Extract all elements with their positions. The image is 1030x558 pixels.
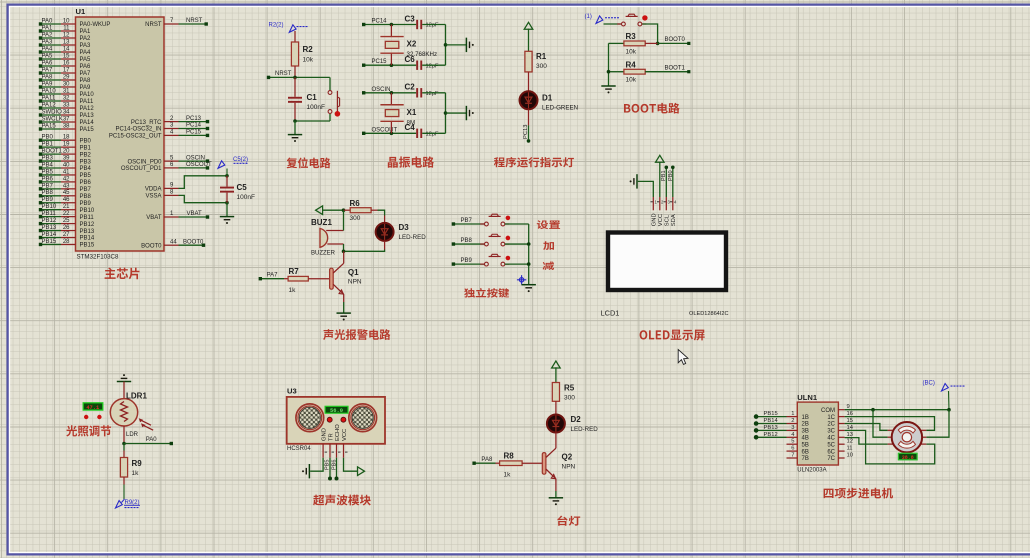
svg-text:11: 11 — [63, 25, 70, 31]
ultrasonic red dots — [327, 417, 332, 422]
wire keys right rail — [528, 224, 530, 284]
capacitor C4 12pF — [416, 129, 418, 138]
photoresistor LDR1 — [110, 399, 137, 426]
buzzer BUZ1 — [320, 229, 328, 248]
svg-text:3: 3 — [791, 425, 794, 431]
svg-text:32: 32 — [63, 95, 70, 101]
svg-text:PB13: PB13 — [80, 229, 95, 235]
wire PB1 to SCL — [665, 167, 667, 197]
svg-text:PB8: PB8 — [80, 194, 92, 200]
label 复位电路 — [287, 157, 331, 168]
svg-text:Q2: Q2 — [562, 453, 573, 462]
pin 7C pin 10 — [838, 457, 844, 459]
pin 7B pin 7 — [787, 457, 798, 459]
push button reset — [329, 77, 331, 90]
svg-text:37: 37 — [63, 116, 70, 122]
wire OSCOUT — [364, 132, 417, 134]
svg-text:PA11: PA11 — [80, 99, 94, 105]
svg-text:R3: R3 — [626, 32, 637, 41]
pin OSCOUT_PD1 6 wire OSCOUT — [164, 167, 179, 169]
wire 3C to motor right-bottom — [845, 430, 935, 464]
svg-text:PC13: PC13 — [523, 124, 529, 139]
wire PA0 from LDR — [123, 426, 125, 444]
svg-text:PA5: PA5 — [80, 57, 92, 63]
wire COM rail — [845, 409, 949, 411]
label 声光报警电路 — [323, 329, 390, 340]
svg-text:ECHO: ECHO — [335, 424, 341, 441]
svg-text:PA15: PA15 — [80, 127, 95, 133]
wire/pin PA7 pin 17 — [41, 72, 62, 74]
svg-text:PA9: PA9 — [80, 85, 92, 91]
svg-text:6B: 6B — [802, 449, 809, 455]
svg-text:OLED12864I2C: OLED12864I2C — [689, 311, 729, 317]
svg-text:PB6: PB6 — [80, 180, 92, 186]
svg-text:(1): (1) — [585, 14, 592, 20]
svg-text:1k: 1k — [504, 472, 512, 479]
wire/pin PB8 pin 45 — [41, 195, 62, 197]
capacitor C1 100nF — [294, 77, 296, 96]
pin PC13_RTC 2 wire PC13 — [164, 121, 179, 123]
pin 1B pin 1 — [787, 416, 798, 418]
svg-text:PA2: PA2 — [42, 32, 54, 38]
svg-text:1B: 1B — [802, 415, 809, 421]
svg-text:(BC): (BC) — [923, 381, 935, 387]
resistor R2 10k — [294, 31, 296, 42]
svg-text:46: 46 — [63, 197, 70, 203]
svg-text:PB9: PB9 — [80, 201, 92, 207]
pin 5C pin 12 — [838, 443, 844, 445]
svg-text:15: 15 — [63, 53, 70, 59]
svg-text:PA1: PA1 — [80, 29, 92, 35]
svg-text:R6: R6 — [350, 199, 361, 208]
svg-text:PB4: PB4 — [42, 162, 54, 168]
svg-text:56.0: 56.0 — [330, 408, 343, 414]
svg-text:PB5: PB5 — [80, 173, 92, 179]
wire PB13 — [756, 429, 786, 431]
svg-text:PA14: PA14 — [80, 120, 95, 126]
pin 5B pin 5 — [787, 443, 798, 445]
svg-text:C3: C3 — [405, 14, 416, 23]
svg-text:PB11: PB11 — [42, 211, 57, 217]
svg-text:42: 42 — [63, 176, 70, 182]
svg-text:PA5: PA5 — [42, 53, 54, 59]
wire/pin PA12 pin 33 — [41, 107, 62, 109]
wire/pin PB10 pin 21 — [41, 209, 62, 211]
svg-text:PA3: PA3 — [80, 43, 92, 49]
svg-text:10: 10 — [847, 453, 853, 459]
svg-text:PB14: PB14 — [80, 236, 95, 242]
pin 3C pin 14 — [838, 429, 844, 431]
svg-text:38.8: 38.8 — [902, 455, 914, 461]
power arrow U3 VCC — [344, 458, 358, 472]
pin 6B pin 6 — [787, 450, 798, 452]
LED D3 LED-RED — [378, 210, 385, 215]
svg-text:PC13_RTC: PC13_RTC — [131, 120, 162, 126]
wire PB12 — [756, 436, 786, 438]
svg-text:300: 300 — [564, 395, 575, 402]
pin 3B pin 3 — [787, 429, 798, 431]
LED D1 LED-GREEN — [520, 91, 538, 109]
svg-text:LED-GREEN: LED-GREEN — [542, 104, 578, 111]
wire left rail boot — [608, 43, 610, 85]
svg-text:COM: COM — [821, 408, 835, 414]
svg-text:R2(2): R2(2) — [269, 22, 284, 28]
svg-text:30: 30 — [63, 81, 70, 87]
node button/R3 junction — [656, 42, 660, 46]
svg-text:PA7: PA7 — [80, 71, 92, 77]
svg-text:PB15: PB15 — [764, 411, 778, 417]
svg-text:D1: D1 — [542, 94, 553, 103]
svg-text:R7: R7 — [289, 267, 300, 276]
svg-text:PA3: PA3 — [42, 39, 54, 45]
label 主芯片 — [105, 268, 140, 280]
power arrow indicator — [524, 22, 533, 29]
svg-text:31: 31 — [63, 88, 70, 94]
crystal X1 8M — [390, 91, 394, 95]
svg-text:10k: 10k — [626, 49, 637, 56]
wire buzzer rail — [343, 210, 345, 230]
wire VDDA to C5 top — [179, 176, 228, 189]
svg-text:R8: R8 — [504, 452, 515, 461]
svg-text:NRST: NRST — [275, 71, 292, 77]
svg-text:BOOT1: BOOT1 — [665, 65, 686, 71]
wire/pin PA8 pin 29 — [41, 79, 62, 81]
svg-text:OSCOUT: OSCOUT — [372, 127, 398, 133]
svg-text:PC13: PC13 — [186, 116, 202, 122]
wire/pin PA9 pin 30 — [41, 86, 62, 88]
svg-text:OSCOUT_PD1: OSCOUT_PD1 — [121, 166, 162, 172]
svg-text:18: 18 — [63, 135, 70, 141]
svg-text:PA12: PA12 — [80, 106, 95, 112]
svg-text:R1: R1 — [536, 52, 547, 61]
svg-text:PB13: PB13 — [42, 225, 57, 231]
wire 4C to motor left-bottom — [845, 438, 888, 445]
svg-text:40: 40 — [63, 162, 70, 168]
transducer right — [349, 404, 377, 432]
svg-text:PB7: PB7 — [461, 218, 473, 224]
svg-text:45: 45 — [63, 190, 70, 196]
wire C1 bottom to button — [295, 120, 330, 122]
pin BOOT0 44 wire BOOT0 — [164, 244, 179, 246]
wire/pin SWCLK pin 37 — [41, 121, 62, 123]
svg-text:PB7: PB7 — [42, 183, 54, 189]
svg-text:4C: 4C — [827, 436, 835, 442]
pin 4C pin 13 — [838, 436, 844, 438]
pin VBAT 1 wire VBAT — [164, 216, 179, 218]
svg-text:PB10: PB10 — [80, 208, 95, 214]
wire/pin PB12 pin 25 — [41, 223, 62, 225]
node C5 top junction — [225, 174, 229, 178]
ground OLED GND pin — [638, 181, 654, 197]
wire BOOT0 out — [658, 42, 689, 44]
svg-text:2: 2 — [791, 418, 794, 424]
wire OSCIN — [364, 92, 417, 94]
svg-text:21: 21 — [63, 204, 70, 210]
pin COM pin 9 — [838, 409, 844, 411]
svg-text:PB1: PB1 — [42, 142, 54, 148]
svg-text:PC15: PC15 — [372, 59, 388, 65]
wire PC15 — [364, 64, 417, 66]
svg-text:PB0: PB0 — [42, 135, 54, 141]
svg-text:7: 7 — [791, 453, 794, 459]
svg-text:PA7: PA7 — [267, 272, 279, 278]
svg-text:X2: X2 — [407, 40, 417, 49]
resistor R4 10k — [609, 71, 624, 73]
svg-text:12: 12 — [63, 32, 70, 38]
svg-text:PA11: PA11 — [42, 95, 56, 101]
svg-text:13: 13 — [847, 432, 853, 438]
svg-text:PA0: PA0 — [146, 437, 158, 443]
svg-text:39: 39 — [63, 155, 70, 161]
svg-text:17: 17 — [63, 67, 70, 73]
wire/pin PB6 pin 42 — [41, 181, 62, 183]
svg-text:26: 26 — [63, 225, 70, 231]
label 晶振电路 — [388, 156, 434, 167]
svg-text:100nF: 100nF — [307, 104, 325, 111]
svg-text:1k: 1k — [289, 287, 297, 294]
svg-text:12pF: 12pF — [426, 91, 439, 97]
label 独立按键 — [464, 288, 509, 298]
svg-text:PC14: PC14 — [186, 123, 202, 129]
blue net label R9(2) — [123, 485, 125, 500]
ground Q2 — [555, 491, 557, 497]
svg-text:PB6: PB6 — [331, 460, 337, 470]
svg-text:PB0: PB0 — [668, 170, 674, 181]
wire D3 to collector node — [344, 250, 385, 252]
wire COM to motor right — [926, 410, 949, 438]
wire VSSA to C5 bottom — [179, 195, 228, 202]
svg-text:PB5: PB5 — [42, 169, 54, 175]
resistor R1 300 — [525, 51, 532, 72]
transistor Q1 NPN — [330, 268, 334, 289]
node collector junction — [342, 250, 346, 254]
svg-text:2B: 2B — [802, 422, 809, 428]
resistor R6 300 — [344, 209, 351, 211]
wire/pin PA0 pin 10 — [41, 23, 62, 25]
wire/pin PA10 pin 31 — [41, 93, 62, 95]
transducer left — [296, 404, 324, 432]
label OLED显示屏 — [640, 330, 705, 341]
LCD1 pins GND VCC SCL SDA — [652, 197, 654, 210]
svg-text:PC14-OSC32_IN: PC14-OSC32_IN — [115, 127, 161, 133]
capacitor C2 12pF — [416, 88, 418, 97]
wire/pin PB15 pin 28 — [41, 243, 62, 245]
wire/pin PB9 pin 46 — [41, 202, 62, 204]
wire/pin PB14 pin 27 — [41, 237, 62, 239]
pin 4B pin 4 — [787, 436, 798, 438]
svg-text:NPN: NPN — [562, 464, 576, 471]
svg-text:GND: GND — [322, 428, 328, 441]
pin 2C pin 15 — [838, 423, 844, 425]
svg-text:4B: 4B — [802, 436, 809, 442]
svg-text:PA8: PA8 — [80, 78, 92, 84]
wire/pin PB1 pin 19 — [41, 146, 62, 148]
svg-text:NPN: NPN — [348, 279, 362, 286]
svg-text:PA13: PA13 — [80, 113, 95, 119]
wire/pin PA5 pin 15 — [41, 58, 62, 60]
svg-text:PA10: PA10 — [42, 88, 57, 94]
svg-text:D3: D3 — [399, 223, 410, 232]
svg-text:41: 41 — [63, 169, 70, 175]
svg-text:PB12: PB12 — [80, 222, 95, 228]
pin VSSA 8 — [164, 194, 179, 196]
label 四项步进电机 — [824, 488, 893, 499]
svg-text:SWCLK: SWCLK — [42, 116, 63, 122]
svg-text:PB15: PB15 — [42, 239, 57, 245]
ground X1 — [465, 106, 467, 120]
push button key PB8 — [480, 243, 484, 245]
svg-text:33: 33 — [63, 102, 70, 108]
svg-text:PB8: PB8 — [42, 190, 54, 196]
stepper motor — [888, 429, 894, 431]
pin 6C pin 11 — [838, 450, 844, 452]
svg-text:R9: R9 — [132, 459, 143, 468]
label BOOT电路 — [624, 103, 680, 114]
svg-text:27: 27 — [63, 232, 70, 238]
svg-text:43: 43 — [63, 183, 70, 189]
svg-text:U1: U1 — [76, 7, 86, 16]
svg-text:20: 20 — [63, 149, 70, 155]
capacitor C3 12pF — [416, 20, 418, 29]
svg-text:BUZ1: BUZ1 — [311, 218, 332, 227]
svg-text:300: 300 — [536, 63, 547, 70]
svg-text:C2: C2 — [405, 83, 416, 92]
resistor R9 1k — [123, 444, 125, 451]
svg-text:HCSR04: HCSR04 — [287, 446, 311, 452]
svg-text:NRST: NRST — [145, 22, 162, 28]
svg-text:PA4: PA4 — [80, 50, 92, 56]
node R2/C1 junction — [293, 76, 297, 80]
wire PB7 key input — [453, 223, 484, 225]
svg-text:25: 25 — [63, 218, 70, 224]
wire COM to motor left — [873, 410, 888, 438]
ground below C5 — [226, 203, 228, 217]
svg-text:LED-RED: LED-RED — [399, 234, 427, 241]
wire PC14 — [364, 24, 417, 26]
wire 1C to motor right-top — [845, 417, 935, 431]
svg-text:PA10: PA10 — [80, 92, 95, 98]
wire PC13 below D1 — [528, 109, 530, 125]
wire PB8 key input — [453, 243, 484, 245]
svg-text:PA1: PA1 — [42, 25, 54, 31]
svg-text:X1: X1 — [407, 108, 417, 117]
wire PA7 input — [260, 278, 284, 280]
wire/pin PB0 pin 18 — [41, 139, 62, 141]
svg-text:PB14: PB14 — [764, 418, 779, 424]
svg-text:R4: R4 — [626, 60, 637, 69]
svg-text:VBAT: VBAT — [146, 215, 162, 221]
svg-text:PB13: PB13 — [764, 425, 778, 431]
svg-text:PB15: PB15 — [80, 243, 95, 249]
resistor R5 300 — [552, 383, 559, 402]
svg-text:10: 10 — [63, 18, 70, 24]
svg-text:LDR: LDR — [126, 432, 139, 438]
svg-text:2C: 2C — [827, 422, 835, 428]
svg-text:12: 12 — [847, 439, 853, 445]
pin 2B pin 2 — [787, 423, 798, 425]
label 加 — [543, 241, 554, 250]
svg-text:VBAT: VBAT — [187, 211, 203, 217]
svg-text:D2: D2 — [571, 415, 582, 424]
svg-text:PA0: PA0 — [42, 18, 54, 24]
svg-text:PA0-WKUP: PA0-WKUP — [80, 22, 111, 28]
wire/pin SWDIO pin 34 — [41, 114, 62, 116]
svg-text:PC15-OSC32_OUT: PC15-OSC32_OUT — [109, 134, 162, 140]
svg-text:1: 1 — [791, 411, 794, 417]
svg-text:PB9: PB9 — [461, 258, 473, 264]
svg-text:PB10: PB10 — [42, 204, 57, 210]
svg-text:6: 6 — [791, 446, 794, 452]
power arrow alarm — [316, 206, 323, 215]
label 程序运行指示灯 — [494, 157, 574, 167]
svg-text:C5(2): C5(2) — [233, 157, 248, 163]
mouse cursor — [678, 350, 688, 365]
svg-text:R2: R2 — [303, 45, 314, 54]
svg-text:PB4: PB4 — [80, 166, 92, 172]
svg-text:PB11: PB11 — [80, 215, 95, 221]
svg-text:LCD1: LCD1 — [601, 309, 620, 318]
transistor Q2 NPN — [542, 453, 546, 475]
wire/pin PA11 pin 32 — [41, 100, 62, 102]
ground U3 GND — [310, 458, 323, 472]
svg-text:STM32F103C8: STM32F103C8 — [77, 254, 120, 261]
svg-text:PB2: PB2 — [80, 152, 92, 158]
ground X2 — [465, 38, 467, 52]
wire/pin PA15 pin 38 — [41, 128, 62, 130]
wire/pin PA3 pin 13 — [41, 44, 62, 46]
svg-text:PA8: PA8 — [42, 74, 54, 80]
svg-text:BOOT0: BOOT0 — [665, 37, 686, 43]
ground Q1 emitter — [343, 302, 345, 313]
svg-text:GND: GND — [652, 213, 658, 226]
svg-text:11: 11 — [847, 446, 853, 452]
svg-text:PB0: PB0 — [80, 138, 92, 144]
crystal X2 32.768KHz — [390, 23, 394, 27]
svg-text:14: 14 — [63, 46, 70, 52]
svg-text:OSCIN: OSCIN — [372, 87, 391, 93]
wire/pin PB11 pin 22 — [41, 216, 62, 218]
LDR display 47.1 — [83, 403, 103, 410]
svg-text:PA6: PA6 — [42, 60, 54, 66]
svg-text:SWDIO: SWDIO — [42, 109, 63, 115]
svg-text:PA15: PA15 — [42, 123, 57, 129]
svg-text:16: 16 — [63, 60, 70, 66]
wire/pin PA1 pin 11 — [41, 30, 62, 32]
svg-text:3B: 3B — [802, 429, 809, 435]
ground LDR top — [117, 381, 131, 383]
display LCD1 OLED body — [608, 233, 726, 291]
pin OSCIN_PD0 5 wire OSCIN — [164, 160, 179, 162]
svg-text:47.1: 47.1 — [86, 405, 99, 411]
svg-text:PB6: PB6 — [42, 176, 54, 182]
svg-text:C5: C5 — [237, 183, 248, 192]
node alarm top junction — [342, 208, 346, 212]
svg-text:PA2: PA2 — [80, 36, 92, 42]
label 设置 — [537, 220, 560, 229]
svg-text:R5: R5 — [564, 384, 575, 393]
svg-text:7C: 7C — [827, 456, 835, 462]
svg-text:10k: 10k — [626, 77, 637, 84]
push button key PB9 — [480, 263, 484, 265]
svg-text:VCC: VCC — [658, 214, 664, 226]
svg-text:PB12: PB12 — [764, 432, 778, 438]
pin PC14-OSC32_IN 3 wire PC14 — [164, 128, 179, 130]
wire/pin PA2 pin 12 — [41, 37, 62, 39]
svg-text:PA6: PA6 — [80, 64, 92, 70]
svg-text:5C: 5C — [827, 442, 835, 448]
resistor R8 1k — [496, 462, 500, 464]
wire PB14 — [756, 423, 786, 425]
